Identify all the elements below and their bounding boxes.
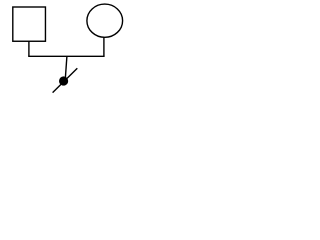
wire family line: [28, 55, 104, 57]
mother circle: [87, 4, 123, 37]
wire child descent: [65, 56, 67, 77]
father square: [13, 7, 46, 41]
wire mother descent: [103, 37, 105, 56]
abortion symbol slash: [53, 68, 78, 92]
abortion symbol filled circle: [59, 76, 68, 85]
wire father descent: [28, 41, 30, 56]
